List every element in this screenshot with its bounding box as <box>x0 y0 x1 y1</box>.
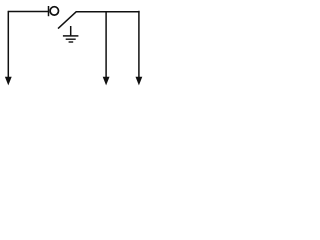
ground bar 1 <box>63 35 79 37</box>
switch hinge circle <box>50 7 58 15</box>
wire: top right horizontal bus segment <box>76 11 140 13</box>
switch blade <box>58 12 76 29</box>
arrowhead: left feeder arrow <box>5 77 12 86</box>
ground bar 2 <box>66 38 76 40</box>
wire: middle vertical drop <box>105 11 107 78</box>
ground stem <box>70 26 72 36</box>
arrowhead: middle feeder arrow <box>103 77 110 86</box>
switch fixed contact tick <box>48 6 50 16</box>
ground bar 3 <box>69 41 74 43</box>
wire: left vertical drop <box>7 11 9 79</box>
wire: left horizontal bus segment <box>8 11 48 13</box>
arrowhead: right feeder arrow <box>136 77 143 86</box>
wire: right vertical drop <box>138 11 140 79</box>
